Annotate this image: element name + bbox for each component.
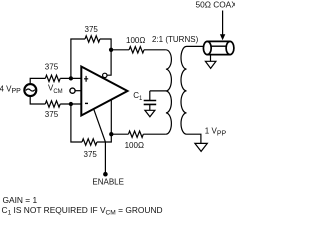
- svg-text:2:1 (TURNS): 2:1 (TURNS): [152, 35, 199, 44]
- wire secondary bottom to ground: [187, 134, 201, 143]
- wire feedback bottom: [71, 104, 82, 142]
- svg-text:375: 375: [45, 63, 59, 72]
- wire C1 center tap: [150, 90, 166, 92]
- wire source top: [30, 78, 45, 84]
- arrow to coax: [222, 11, 224, 36]
- resistor R1 375 (top input): [45, 75, 60, 81]
- svg-text:100Ω: 100Ω: [125, 141, 144, 150]
- wire out- to R6: [111, 133, 128, 135]
- svg-text:50Ω COAX: 50Ω COAX: [196, 0, 236, 10]
- svg-text:375: 375: [85, 25, 99, 34]
- resistor R6 100ohm (bottom): [128, 131, 143, 137]
- capacitor C1 lead bottom: [149, 104, 151, 110]
- wire enable slant: [94, 109, 106, 172]
- svg-text:GAIN = 1: GAIN = 1: [3, 195, 38, 205]
- wire from bottom tap to out- node: [110, 100, 112, 134]
- coax ground stub: [210, 55, 212, 62]
- ground (C1): [145, 110, 155, 117]
- op-amp + input symbol: [84, 76, 88, 82]
- op-amp - input symbol: [85, 102, 88, 104]
- svg-text:C1: C1: [133, 91, 143, 102]
- wire source bottom: [30, 96, 45, 104]
- op-amp U1: [81, 67, 127, 116]
- wire R5 to transformer primary top: [144, 49, 166, 51]
- wire vcm: [75, 90, 80, 92]
- svg-text:C1 IS NOT REQUIRED IF VCM = GR: C1 IS NOT REQUIRED IF VCM = GROUND: [2, 205, 163, 217]
- resistor R4 375 (bottom feedback): [82, 139, 97, 145]
- svg-text:1 VPP: 1 VPP: [205, 126, 227, 137]
- junction node +in: [69, 76, 73, 80]
- ground (coax shield): [205, 61, 216, 68]
- terminal circle VCM: [70, 88, 75, 93]
- wire out+ to R5: [111, 49, 129, 51]
- svg-text:4 VPP: 4 VPP: [0, 84, 21, 95]
- wire to -in: [60, 103, 80, 105]
- transformer T1 primary winding: [166, 50, 172, 134]
- junction node out-: [109, 132, 113, 136]
- capacitor C1 lead top: [149, 91, 151, 101]
- wire secondary top to coax: [187, 45, 204, 47]
- sine symbol: [26, 89, 35, 91]
- wire to +in: [60, 77, 80, 79]
- capacitor C1 plates: [144, 101, 157, 105]
- resistor R5 100ohm (top): [129, 47, 144, 53]
- transformer T1 secondary winding: [181, 46, 187, 134]
- svg-text:VCM: VCM: [48, 83, 63, 95]
- junction node -in: [69, 102, 73, 106]
- coax cable symbol: [203, 41, 234, 54]
- op-amp inverting output bubble: [103, 73, 107, 77]
- wire from bubble up to out+ node: [107, 50, 111, 75]
- svg-text:ENABLE: ENABLE: [92, 178, 124, 187]
- svg-text:375: 375: [45, 110, 59, 119]
- wire feedback top corner: [100, 39, 111, 50]
- ground (secondary bottom): [195, 143, 207, 151]
- resistor R2 375 (bottom input): [45, 101, 60, 107]
- svg-text:100Ω: 100Ω: [126, 36, 145, 45]
- terminal dot ENABLE: [103, 172, 108, 177]
- source V1 4Vpp: [24, 84, 36, 96]
- wire feedback top: [71, 39, 85, 78]
- wire feedback bottom corner: [97, 134, 111, 142]
- resistor R3 375 (top feedback): [85, 36, 100, 42]
- junction node out+: [109, 48, 113, 52]
- wire R6 to transformer primary bottom: [143, 133, 166, 135]
- svg-text:375: 375: [84, 150, 98, 159]
